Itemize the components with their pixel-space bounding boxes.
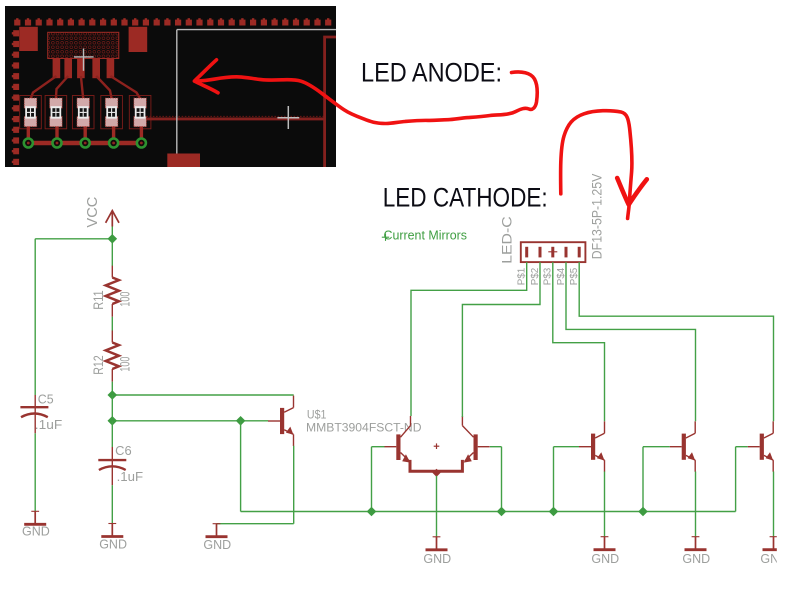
svg-text:VCC: VCC bbox=[85, 197, 101, 228]
wire VCC to R11 bbox=[111, 227, 113, 267]
wire junction down to C6 bbox=[111, 395, 113, 421]
ground GND (C6) bbox=[99, 524, 127, 552]
wire R12 junction to U$1 collector bbox=[112, 394, 293, 396]
svg-text:R12: R12 bbox=[90, 355, 106, 375]
ground GND (C5) bbox=[22, 511, 50, 538]
wire base rail to U$1 bbox=[112, 420, 268, 422]
SMD resistors R1-R5 on board bbox=[20, 96, 151, 129]
right-side vertical trace bbox=[325, 37, 336, 167]
svg-text:C5: C5 bbox=[38, 392, 54, 406]
fanout traces from module pads to resistors bbox=[31, 76, 140, 99]
svg-text:100: 100 bbox=[116, 356, 132, 371]
svg-text:C6: C6 bbox=[115, 444, 132, 458]
svg-text:R11: R11 bbox=[90, 290, 106, 310]
red hand-drawn arrow to LED cathode connector bbox=[561, 111, 647, 219]
wire down to C5 bbox=[34, 239, 36, 395]
wire P$3 net to Q2 collector bbox=[553, 262, 605, 421]
svg-text:P$5: P$5 bbox=[569, 267, 580, 285]
wire common base rail bbox=[241, 511, 736, 513]
board dimension outline (gray) bbox=[177, 30, 336, 167]
wire R11 to R12 bbox=[111, 317, 113, 331]
wire VCC junction to left bbox=[35, 238, 112, 240]
wire C6 to GND bbox=[111, 485, 113, 523]
transistor Q-mirror-left bbox=[384, 416, 410, 463]
LED module stub pads bbox=[53, 59, 115, 79]
wire mirror-left base to rail bbox=[372, 446, 385, 448]
svg-text:GND: GND bbox=[203, 538, 231, 552]
node rail/Q3 base bbox=[638, 507, 648, 517]
ground GND (Q2) bbox=[591, 537, 619, 566]
node rail/right-base bbox=[497, 507, 507, 517]
transistor U$1 MMBT3904 bbox=[268, 396, 294, 446]
svg-text:P$2: P$2 bbox=[530, 268, 541, 285]
svg-text:LED CATHODE:: LED CATHODE: bbox=[383, 182, 548, 212]
resistor R12 bbox=[106, 331, 119, 382]
red hand-drawn arrow to LED anode pads bbox=[195, 60, 538, 124]
node rail/Q2 base bbox=[549, 507, 559, 517]
wire U$1 emitter down and left to GND bbox=[293, 446, 295, 524]
wire P$1 net to mirror-left collector bbox=[411, 262, 527, 416]
svg-text:Current Mirrors: Current Mirrors bbox=[384, 228, 468, 243]
ground GND (mirror pair) bbox=[423, 537, 451, 566]
connector pins P$1-P$5 bbox=[525, 247, 581, 258]
svg-text:GND: GND bbox=[423, 552, 451, 566]
shared emitter bar of mirror pair bbox=[410, 460, 462, 471]
wire R12 to junction bbox=[111, 382, 113, 395]
svg-text:DF13-5P-1.25V: DF13-5P-1.25V bbox=[589, 173, 605, 259]
second white crosshair bbox=[277, 106, 299, 129]
svg-text:100: 100 bbox=[116, 291, 132, 306]
svg-text:.1uF: .1uF bbox=[117, 470, 144, 484]
wire C5 to GND bbox=[34, 433, 36, 511]
connector LED-C DF13-5P-1.25V bbox=[521, 242, 586, 262]
via bus trace bbox=[28, 141, 141, 146]
node junction feedback tap bbox=[236, 416, 246, 426]
ground GND (U$1 emitter) bbox=[203, 524, 231, 553]
node junction R12/C6 bbox=[107, 390, 117, 400]
node rail/left-base bbox=[367, 507, 377, 517]
svg-text:P$1: P$1 bbox=[517, 268, 528, 285]
PCB board screenshot background bbox=[5, 6, 336, 167]
wire P$5 net to Q4 collector bbox=[579, 262, 773, 421]
svg-text:GND: GND bbox=[682, 552, 710, 566]
wire mirror-right base to rail bbox=[490, 446, 502, 448]
VCC symbol bbox=[106, 211, 119, 227]
wire P$2 net to mirror-right collector bbox=[462, 262, 540, 417]
svg-text:LED-C: LED-C bbox=[500, 216, 515, 264]
wire Q3 emitter to GND bbox=[695, 472, 697, 537]
transistor Q4 bbox=[748, 421, 774, 471]
transistor Q3 bbox=[670, 421, 696, 471]
wire tap down to common base rail bbox=[240, 421, 242, 512]
wire Q4 base tap bbox=[736, 446, 748, 448]
svg-text:GND: GND bbox=[591, 552, 619, 566]
right-edge clip of original screenshot bbox=[777, 300, 800, 597]
wire Q4 emitter to GND bbox=[773, 472, 775, 537]
LED module footprint (hatched) bbox=[48, 32, 119, 58]
svg-text:U$1: U$1 bbox=[307, 410, 327, 422]
PCB left dotted border column bbox=[12, 30, 19, 165]
through-hole vias with green rings bbox=[24, 139, 146, 148]
resistor R11 bbox=[106, 266, 119, 317]
node VCC junction bbox=[107, 234, 117, 244]
bottom red rectangle pad bbox=[167, 154, 200, 168]
white crosshair on LED module bbox=[74, 49, 94, 71]
transistor Q2 bbox=[579, 421, 605, 471]
PCB pad right of LED module bbox=[129, 27, 148, 52]
origin cross of connector bbox=[548, 251, 557, 253]
node junction base wire bbox=[107, 416, 117, 426]
svg-text:GND: GND bbox=[99, 538, 127, 552]
capacitor C5 bbox=[20, 395, 48, 433]
ground GND (Q3) bbox=[682, 537, 710, 566]
node emitter diamond bbox=[432, 469, 440, 477]
wire Q2 emitter to GND bbox=[604, 472, 606, 537]
PCB top dotted border row bbox=[14, 18, 331, 25]
long thin trace from R5 to the right bbox=[146, 117, 324, 120]
svg-text:P$3: P$3 bbox=[543, 267, 554, 285]
svg-text:GND: GND bbox=[22, 524, 50, 538]
transistor Q-mirror-right (mirrored) bbox=[462, 416, 489, 463]
origin cross of Current Mirrors label bbox=[382, 234, 389, 241]
PCB pad left of LED module bbox=[19, 27, 38, 51]
svg-text:LED ANODE:: LED ANODE: bbox=[361, 58, 502, 88]
connector pin labels bbox=[517, 267, 581, 285]
traces from resistors down to vias bbox=[28, 127, 141, 144]
wire P$4 net to Q3 collector bbox=[566, 262, 696, 421]
wire mirror emitters to GND bbox=[436, 476, 438, 537]
svg-text:P$4: P$4 bbox=[556, 267, 567, 285]
origin cross of mirror pair bbox=[434, 443, 440, 449]
ground GND (Q4) bbox=[760, 537, 788, 566]
wire Q2 base tap bbox=[554, 446, 580, 448]
wire Q3 base tap bbox=[643, 446, 670, 448]
svg-text:.1uF: .1uF bbox=[35, 418, 63, 432]
capacitor C6 bbox=[111, 421, 113, 447]
